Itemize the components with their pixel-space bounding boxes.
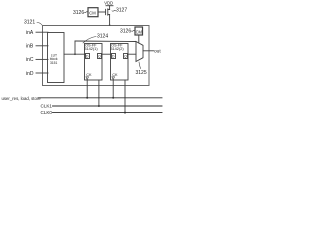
wire FF1 CK drop <box>98 80 100 106</box>
multiplexer 3125 <box>136 42 143 62</box>
wire LUT output to FF1 D <box>64 53 85 55</box>
wire FF2 store pin drop <box>112 80 114 98</box>
svg-text:Q: Q <box>98 55 101 59</box>
wire inC <box>36 58 48 60</box>
svg-text:inA: inA <box>26 30 34 36</box>
svg-text:Q: Q <box>124 55 127 59</box>
node out <box>154 49 161 55</box>
svg-text:user_res, load, store: user_res, load, store <box>2 96 42 101</box>
label 3125 <box>136 70 147 76</box>
wire bus user_res load store <box>39 97 163 99</box>
label 3126 (top) <box>73 10 84 16</box>
svg-text:3121: 3121 <box>24 19 35 25</box>
node inA <box>26 30 34 36</box>
svg-text:inB: inB <box>26 44 34 50</box>
svg-text:3142(1): 3142(1) <box>84 47 98 51</box>
svg-text:3142(2): 3142(2) <box>110 47 124 51</box>
node drain junction <box>109 24 111 26</box>
svg-text:inD: inD <box>26 71 34 77</box>
svg-text:CK: CK <box>112 73 118 77</box>
svg-text:3125: 3125 <box>136 70 147 76</box>
leader for 3126 top <box>84 12 88 13</box>
svg-text:3124: 3124 <box>97 34 108 40</box>
wire bypass vertical <box>74 41 76 54</box>
leader for 3127 <box>112 9 116 12</box>
configuration memory CM 3126 (inside) <box>135 27 143 35</box>
wire FF2 Q to MUX <box>128 53 137 55</box>
node inB <box>26 44 34 50</box>
node junction on LUT output <box>74 53 76 55</box>
wire inA <box>36 31 48 33</box>
svg-text:out: out <box>154 49 161 55</box>
wire FF1 store pin drop <box>86 80 88 98</box>
leader for 3124 <box>83 37 96 44</box>
node dot FF1 CK on CLK1 <box>98 105 100 107</box>
flip-flop OS-FF 3142(2) <box>110 43 128 80</box>
node inD <box>26 71 34 77</box>
svg-text:CM: CM <box>89 10 96 15</box>
svg-text:VDD: VDD <box>104 1 113 6</box>
wire inB <box>36 45 48 47</box>
node dot FF2 CK on CLK0 <box>124 112 126 114</box>
leader for 3126 inside <box>131 30 135 31</box>
node CLK0 <box>41 110 53 115</box>
label 3126 (inside) <box>120 29 131 35</box>
LUT block 3151 <box>48 33 65 83</box>
node dot FF1 store on bus <box>86 97 88 99</box>
svg-text:3126: 3126 <box>73 10 84 16</box>
svg-text:3127: 3127 <box>116 8 127 14</box>
wire bus CLK0 <box>53 112 163 114</box>
node dot FF2 store on bus <box>112 97 114 99</box>
label 3124 <box>97 34 108 40</box>
wire transistor drain to block <box>109 15 111 26</box>
transistor 3127 <box>106 9 110 15</box>
wire bypass horizontal to MUX <box>75 40 136 43</box>
svg-text:CLK1: CLK1 <box>41 104 53 109</box>
PLE outer block 3121 <box>43 26 150 86</box>
svg-text:CLK0: CLK0 <box>41 110 53 115</box>
wire inD <box>36 72 48 74</box>
flip-flop OS-FF 3142(1) <box>84 43 102 80</box>
leader for 3125 <box>139 62 141 69</box>
node CLK1 <box>41 104 53 109</box>
power VDD <box>104 1 113 10</box>
wire bus CLK1 <box>53 105 163 107</box>
wire CM to transistor gate <box>98 11 105 13</box>
svg-text:CM: CM <box>136 30 143 35</box>
wire FF1 Q to FF2 D <box>102 53 112 55</box>
svg-text:inC: inC <box>26 57 34 63</box>
configuration memory CM 3126 (top) <box>88 8 98 17</box>
wire FF2 CK drop <box>124 80 126 113</box>
svg-text:3151: 3151 <box>50 61 58 65</box>
svg-text:CK: CK <box>86 73 92 77</box>
svg-text:3126: 3126 <box>120 29 131 35</box>
leader for 3121 <box>37 23 42 26</box>
node inC <box>26 57 34 63</box>
label 3127 <box>116 8 127 14</box>
wire MUX output <box>143 50 154 52</box>
node user_res load store <box>2 96 42 101</box>
wire CM to MUX select <box>138 35 140 43</box>
label 3121 <box>24 19 35 25</box>
